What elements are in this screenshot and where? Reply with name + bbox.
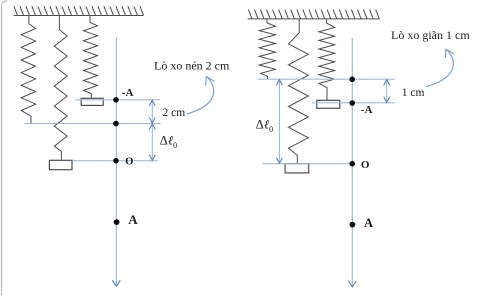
svg-text:-A: -A xyxy=(361,104,373,116)
node natural length (right) xyxy=(349,77,355,83)
spring 2 (right system, stretched to O) xyxy=(289,19,309,164)
ceiling (right system) xyxy=(248,10,380,19)
mass block on spring 3 (right) xyxy=(317,100,340,108)
spring 2 (left system, stretched to O) xyxy=(54,16,67,161)
svg-text:2 cm: 2 cm xyxy=(163,107,186,119)
line -A level (left) xyxy=(76,99,161,101)
node A (left) xyxy=(114,219,120,225)
axis (left), downward arrow xyxy=(115,38,117,287)
mass block on spring 3 (left) xyxy=(81,98,103,105)
node natural length (left) xyxy=(113,121,119,127)
card border xyxy=(2,1,8,295)
svg-text:O: O xyxy=(125,156,133,167)
node -A (right) xyxy=(349,100,355,106)
ceiling (left system) xyxy=(14,6,144,15)
node O (left) xyxy=(113,158,119,164)
dimension arrow Delta-l0 (left, between natural and O) xyxy=(151,124,153,161)
svg-text:Δℓ0: Δℓ0 xyxy=(160,134,177,151)
svg-text:-A: -A xyxy=(122,87,134,99)
mass block on spring 2 (right) xyxy=(285,164,309,173)
svg-text:A: A xyxy=(128,212,138,227)
line -A level (right) xyxy=(312,102,395,104)
axis (right), downward arrow xyxy=(351,38,353,287)
svg-text:Lò xo giãn 1 cm: Lò xo giãn 1 cm xyxy=(391,28,470,42)
svg-text:A: A xyxy=(364,216,373,230)
curved callout arrow (left) xyxy=(187,77,215,114)
spring 3 (left system, compressed, mass at -A) xyxy=(84,16,98,99)
svg-text:Δℓ0: Δℓ0 xyxy=(256,118,273,135)
spring 3 (right system, mass at -A) xyxy=(319,19,335,100)
node O (right) xyxy=(349,161,355,167)
line natural-length level (right) xyxy=(258,78,395,80)
svg-text:1 cm: 1 cm xyxy=(402,87,425,99)
dimension arrow 2 cm (left, between -A and natural) xyxy=(151,100,153,123)
spring 1 (right system, compressed to natural line) xyxy=(259,19,275,79)
curved callout arrow (right) xyxy=(427,49,455,86)
line O level (right) xyxy=(262,163,352,165)
line O level (left) xyxy=(72,160,158,162)
line natural-length level (left) xyxy=(25,123,161,125)
svg-text:O: O xyxy=(361,159,370,171)
node -A (left) xyxy=(113,97,119,103)
dimension arrow Delta-l0 (right, natural to O) xyxy=(278,80,280,164)
node A (right) xyxy=(350,222,356,228)
dimension arrow 1 cm (right, natural to -A) xyxy=(386,80,388,103)
svg-text:Lò xo nén 2 cm: Lò xo nén 2 cm xyxy=(154,58,230,72)
spring 1 (left system, natural length reference) xyxy=(21,16,35,124)
mass block on spring 2 (left) xyxy=(49,160,72,169)
